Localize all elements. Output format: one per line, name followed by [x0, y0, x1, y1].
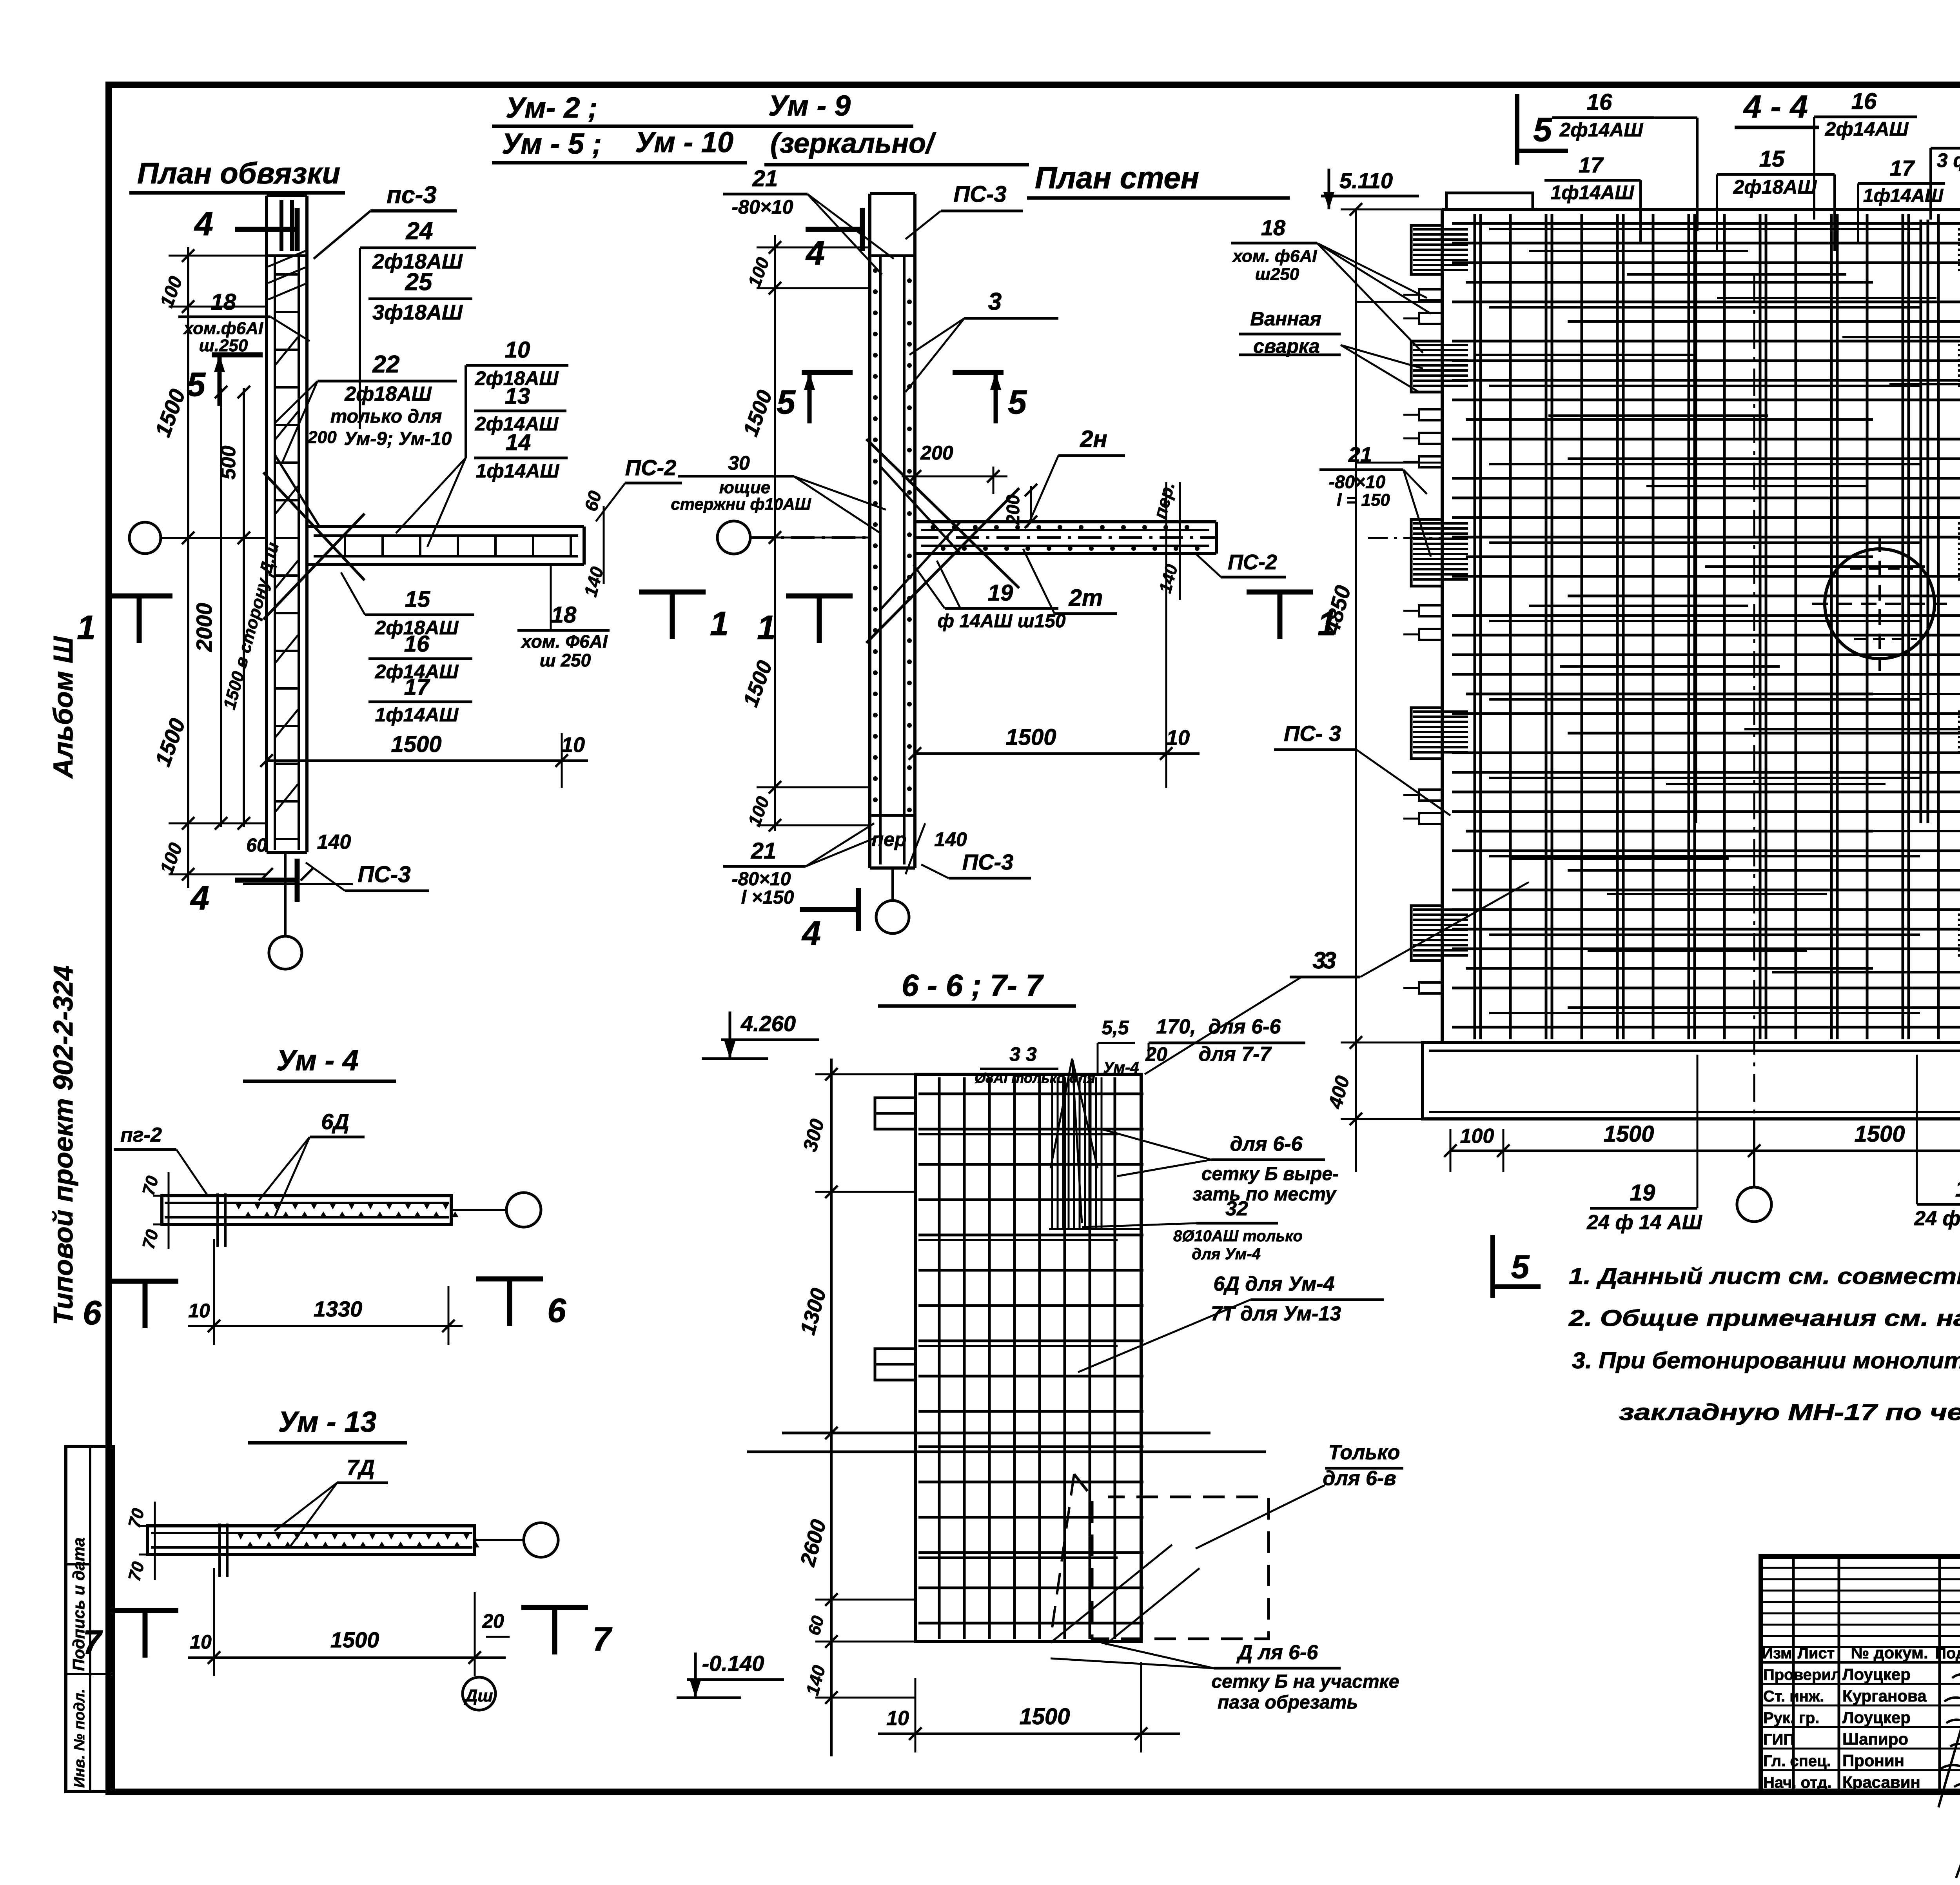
header line 1: Ум-2 ; Ум-9 — [492, 89, 913, 126]
svg-text:140: 140 — [934, 828, 967, 850]
label Только для 6-6 — [1196, 1441, 1403, 1549]
svg-text:Гл. спец.: Гл. спец. — [1763, 1752, 1831, 1770]
svg-text:3ф18АШ: 3ф18АШ — [372, 301, 463, 324]
section mark 5 top D3 — [1517, 94, 1568, 165]
top labels over 4-4: 16 2ф14АШ left — [1552, 89, 1697, 231]
svg-text:22: 22 — [372, 351, 400, 378]
svg-text:5.110: 5.110 — [1339, 168, 1393, 193]
axis circle Дш — [463, 1677, 495, 1710]
6-6 funnel leader triangle — [1051, 1059, 1098, 1223]
title block (stamp) — [1761, 1556, 1960, 1791]
svg-text:2ф14АШ: 2ф14АШ — [1559, 119, 1644, 141]
svg-text:2000: 2000 — [192, 603, 216, 652]
svg-text:3: 3 — [1323, 947, 1336, 973]
title block left table texts — [1762, 1643, 1960, 1791]
elevation 4.260 flag — [702, 1011, 819, 1059]
axis circle D2 bottom — [876, 868, 909, 933]
6-6 bottom dim 10 / 1500 — [878, 1662, 1180, 1752]
svg-text:5: 5 — [187, 366, 206, 403]
svg-text:2н: 2н — [1080, 426, 1107, 452]
svg-text:Д ля 6-6: Д ля 6-6 — [1236, 1641, 1319, 1664]
svg-text:1500: 1500 — [1603, 1121, 1654, 1147]
svg-text:30: 30 — [728, 452, 750, 474]
section marks 5 D2 — [777, 372, 1027, 423]
svg-text:l ×150: l ×150 — [741, 887, 794, 908]
label 2н D2 — [1027, 426, 1125, 527]
svg-text:10: 10 — [1166, 726, 1190, 750]
svg-text:ПС-3: ПС-3 — [962, 850, 1014, 874]
svg-text:Ум - 13: Ум - 13 — [278, 1406, 376, 1438]
svg-text:пс-3: пс-3 — [387, 182, 436, 209]
Ум-13 bar — [147, 1524, 475, 1577]
Ум-4 bottom dim 10/1330 — [188, 1239, 463, 1345]
svg-text:200: 200 — [307, 428, 337, 447]
notes text block — [1568, 1264, 1960, 1425]
svg-text:ш250: ш250 — [1255, 265, 1299, 284]
labels left side D3: 18 хом ф6АI ш250 — [1231, 215, 1431, 353]
svg-text:Ум-9; Ум-10: Ум-9; Ум-10 — [344, 429, 452, 449]
svg-text:1. Данный лист см. совмест: 1. Данный лист см. совместно с листами К… — [1569, 1264, 1960, 1289]
label ПС-3 bottom D2 — [921, 850, 1031, 878]
svg-text:Ст. инж.: Ст. инж. — [1763, 1688, 1824, 1705]
elevation mark 5.110 D3 — [1321, 168, 1419, 209]
left margin vertical caption: Типовой проект 902-2-324 Альбом III — [48, 636, 78, 1325]
section mark 5 bottom D3 — [1493, 1235, 1541, 1298]
svg-text:5: 5 — [777, 383, 796, 421]
label 18 хом ф6АI ш250 D1 left — [178, 289, 310, 355]
svg-text:Лист: Лист — [1798, 1645, 1835, 1662]
svg-text:5: 5 — [1008, 383, 1027, 421]
Ум-4 bar (precast + monolithic slab plan) — [162, 1193, 451, 1247]
svg-text:32: 32 — [1225, 1197, 1248, 1220]
section mark 5 D1 — [187, 355, 263, 406]
label ПС-3 top D1 — [314, 182, 457, 259]
svg-text:4: 4 — [190, 879, 209, 917]
svg-text:Типовой проект 902-2-324: Типовой проект 902-2-324 — [48, 966, 78, 1325]
svg-text:16: 16 — [1851, 89, 1877, 114]
svg-text:1500: 1500 — [330, 1627, 379, 1652]
svg-text:10: 10 — [190, 1631, 212, 1653]
svg-text:-80×10: -80×10 — [1329, 472, 1386, 492]
svg-text:Дш: Дш — [464, 1686, 493, 1705]
svg-text:21: 21 — [1348, 443, 1372, 467]
4-4 notch hatching (anchor bars) — [1413, 229, 1960, 955]
svg-text:16: 16 — [1587, 89, 1612, 115]
svg-text:Проверил: Проверил — [1763, 1666, 1841, 1683]
axis circle D1 left — [129, 522, 267, 554]
elevation -0.140 flag — [677, 1651, 784, 1698]
svg-text:ш.250: ш.250 — [199, 336, 248, 355]
left-bottom stamp strip: Инв № подл / Подпись и дата — [66, 1447, 114, 1792]
label 21 -80x10 e150 left D3 — [1319, 443, 1431, 557]
4-4 horizontal rebar lines — [1452, 223, 1960, 1027]
svg-text:Ум - 10: Ум - 10 — [635, 126, 733, 158]
svg-text:1ф14АШ: 1ф14АШ — [1551, 182, 1635, 203]
svg-text:21: 21 — [752, 166, 778, 191]
svg-text:-80×10: -80×10 — [732, 869, 791, 890]
svg-text:24 ф 14 АШ: 24 ф 14 АШ — [1586, 1211, 1702, 1234]
label 33 ф8АI только для Ум-4 — [975, 1043, 1139, 1086]
4-4 edge clips (embedded plates) — [1403, 289, 1960, 993]
svg-text:4: 4 — [194, 205, 213, 243]
svg-text:1: 1 — [710, 605, 729, 643]
Ум-4 mesh triangle ticks — [235, 1203, 459, 1217]
svg-text:Красавин: Красавин — [1842, 1773, 1920, 1791]
svg-text:18: 18 — [211, 289, 236, 315]
label ПС-3 top D2 — [906, 182, 1023, 239]
axis circle D1 bottom — [269, 852, 302, 969]
svg-text:для 7-7: для 7-7 — [1199, 1043, 1272, 1066]
svg-text:13: 13 — [505, 383, 530, 409]
svg-text:ПС-3: ПС-3 — [358, 862, 410, 887]
svg-text:Пронин: Пронин — [1842, 1751, 1904, 1770]
top label 17 1ф14АШ left — [1544, 153, 1641, 243]
section mark 1 left D1 — [77, 596, 172, 646]
svg-text:сетку Б на участке: сетку Б на участке — [1211, 1671, 1399, 1692]
svg-text:l = 150: l = 150 — [1337, 490, 1390, 510]
4-4 short lap bars — [1474, 251, 1960, 972]
svg-text:100: 100 — [1460, 1125, 1494, 1148]
section mark 1 right D1 — [639, 592, 729, 643]
svg-text:пг-2: пг-2 — [120, 1124, 162, 1146]
svg-text:17: 17 — [1579, 153, 1604, 177]
svg-text:7Т для Ум-13: 7Т для Ум-13 — [1211, 1302, 1341, 1325]
svg-text:7: 7 — [83, 1623, 103, 1661]
svg-text:5: 5 — [1511, 1248, 1530, 1285]
label ПС-3 bottom D1 — [306, 862, 429, 891]
svg-text:170,: 170, — [1156, 1015, 1196, 1038]
6-6 bottom leader diagonals — [1051, 1545, 1200, 1645]
label 3 left-bottom D3 — [1290, 882, 1529, 977]
svg-text:1: 1 — [77, 609, 96, 646]
svg-text:15: 15 — [1759, 146, 1785, 172]
svg-text:8Ø10АШ только: 8Ø10АШ только — [1173, 1228, 1303, 1245]
svg-text:4 - 4: 4 - 4 — [1743, 89, 1808, 125]
dimension chain D1 left: 100/1500/2000/500 — [150, 247, 283, 888]
svg-text:25: 25 — [405, 269, 433, 296]
label пер / ПС-2 / 140 right D2 — [1149, 479, 1286, 600]
svg-text:пер: пер — [872, 828, 907, 850]
svg-text:10: 10 — [505, 337, 530, 363]
svg-text:хом. Ф6АI: хом. Ф6АI — [520, 631, 608, 652]
svg-text:4.260: 4.260 — [740, 1011, 796, 1036]
top label 25 3ф18АШ — [1931, 120, 1960, 220]
dim 60/140 bottom D1 — [243, 831, 353, 884]
6-6 panel outline — [875, 1074, 1141, 1642]
dimension chain D2 left — [739, 235, 870, 832]
Ум-13 left dims 70/70 — [125, 1502, 171, 1583]
label 19 ф14АШ ш150 D2 — [913, 561, 1066, 632]
svg-text:17: 17 — [1890, 156, 1915, 180]
svg-text:6 - 6 ; 7- 7: 6 - 6 ; 7- 7 — [902, 968, 1044, 1002]
svg-text:3. При бетонировании монолит: 3. При бетонировании монолитного участка… — [1572, 1348, 1960, 1373]
svg-text:1500: 1500 — [391, 732, 441, 757]
svg-text:ПС-3: ПС-3 — [953, 182, 1006, 207]
svg-text:ф 14АШ ш150: ф 14АШ ш150 — [938, 611, 1066, 632]
dim 200 horizontal D2 — [902, 442, 1007, 494]
svg-text:10: 10 — [188, 1300, 210, 1322]
svg-text:2т: 2т — [1069, 585, 1103, 611]
svg-text:2ф18АШ: 2ф18АШ — [344, 383, 432, 405]
svg-text:Ум - 5 ;: Ум - 5 ; — [502, 127, 602, 160]
junction diagonals D1 — [263, 455, 365, 619]
svg-text:20: 20 — [482, 1610, 504, 1632]
label 21 -80x10 l=150 bottom D2 — [723, 823, 882, 908]
svg-text:хом.ф6АI: хом.ф6АI — [183, 319, 263, 338]
svg-text:10: 10 — [561, 733, 585, 757]
section 4-4 title — [1735, 89, 1819, 127]
svg-text:3: 3 — [988, 288, 1002, 315]
labels top right 6-6: 5,5 / 170 для 6-6 / 20 для 7-7 — [1098, 1015, 1305, 1074]
6-6 long construction joint lines — [747, 1433, 1266, 1452]
svg-text:Нач. отд.: Нач. отд. — [1763, 1774, 1832, 1791]
svg-text:Ванная: Ванная — [1250, 308, 1321, 330]
svg-text:ш 250: ш 250 — [540, 650, 591, 670]
label 30 стержни ф10АШ D2 — [671, 452, 886, 533]
label 7Д — [274, 1455, 388, 1547]
svg-text:сетку Б выре-: сетку Б выре- — [1201, 1164, 1339, 1184]
svg-text:Только: Только — [1328, 1441, 1400, 1464]
dim 60/140 right of branch D1 — [580, 489, 607, 599]
section mark 4 bottom D1 — [190, 859, 297, 917]
svg-text:План обвязки: План обвязки — [137, 157, 340, 190]
4-4 footing strip — [1423, 1042, 1960, 1119]
6-6 dashed cut-out box — [1051, 1474, 1269, 1639]
svg-text:ющие: ющие — [719, 478, 771, 497]
4-4 panel outline with castellated edges — [1411, 193, 1960, 1042]
svg-text:6Д: 6Д — [321, 1109, 349, 1134]
svg-text:4: 4 — [801, 915, 821, 952]
svg-text:6: 6 — [547, 1292, 566, 1329]
axis circle D2 left — [717, 521, 1216, 554]
4-4 bottom axis circle — [1737, 1119, 1771, 1222]
dim 1500 / 10 D2 — [909, 482, 1200, 788]
svg-text:24 ф 14 АШ: 24 ф 14 АШ — [1914, 1207, 1960, 1230]
svg-text:ПС-2: ПС-2 — [625, 455, 677, 480]
svg-text:Ум - 4: Ум - 4 — [276, 1044, 359, 1077]
svg-text:1500: 1500 — [1005, 725, 1056, 750]
svg-text:200: 200 — [1003, 494, 1023, 525]
title block signatures squiggles — [1938, 1666, 1960, 1878]
label stack 15/16/17 D1 — [341, 572, 474, 726]
6-6 dense mesh top right (for Ум-4) — [1049, 1077, 1141, 1229]
label 6Д для Ум-4 / 7Т для Ум-13 — [1078, 1273, 1384, 1372]
svg-text:1500: 1500 — [1854, 1121, 1905, 1147]
svg-text:Ум-4: Ум-4 — [1103, 1059, 1139, 1076]
svg-text:3 3: 3 3 — [1009, 1043, 1037, 1065]
label Для 6-6 сетку Б на участке паза обрезать — [1051, 1641, 1399, 1713]
title Ум-13 — [248, 1406, 407, 1443]
svg-text:19: 19 — [1955, 1176, 1960, 1202]
label 32 8ф10АШ только для Ум-4 — [1082, 1197, 1303, 1263]
svg-text:1ф14АШ: 1ф14АШ — [476, 460, 560, 482]
Ум-4 axis circle right — [451, 1193, 541, 1227]
svg-text:для Ум-4: для Ум-4 — [1192, 1246, 1261, 1263]
svg-text:2ф14АШ: 2ф14АШ — [1825, 118, 1909, 140]
svg-text:17: 17 — [404, 674, 430, 700]
4-4 circle opening with dashed cross — [1812, 536, 1947, 671]
svg-text:3 ф 18 АШ: 3 ф 18 АШ — [1937, 149, 1960, 171]
section mark 4 top D1 — [194, 205, 297, 251]
section mark 1 D2 pair — [757, 592, 1336, 646]
svg-text:№ докум.: № докум. — [1851, 1643, 1928, 1662]
rebar dots D2 branch — [931, 525, 1200, 551]
svg-text:14: 14 — [506, 430, 531, 455]
top label 15 2ф18АШ — [1717, 146, 1835, 251]
svg-text:зать по месту: зать по месту — [1192, 1184, 1337, 1205]
wall column D1 (ПС-3 panel plan) — [267, 196, 307, 852]
label 21 -80x10 top D2 — [723, 166, 894, 274]
Ум-13 bottom dim 10/1500/20 — [188, 1568, 510, 1676]
svg-text:21: 21 — [751, 838, 777, 864]
wall column D2 — [870, 194, 915, 868]
svg-text:10: 10 — [886, 1707, 909, 1730]
svg-text:для 6-6: для 6-6 — [1230, 1133, 1303, 1155]
label stack 10/13/14 D1 — [396, 337, 568, 547]
svg-text:(зеркально/: (зеркально/ — [770, 128, 936, 159]
svg-text:500: 500 — [217, 446, 240, 480]
Ум-4 section marks 6 — [83, 1279, 566, 1332]
svg-text:ПС-2: ПС-2 — [1228, 550, 1277, 574]
label 18 хом Ф6АI ш250 D1 bottom-right — [517, 565, 610, 670]
4-4 vertical rebar lines — [1475, 214, 1960, 1039]
svg-text:2. Общие примечания см.: 2. Общие примечания см. на листе КШ-23. — [1568, 1306, 1960, 1331]
svg-text:5,5: 5,5 — [1102, 1017, 1129, 1039]
svg-text:6Д для Ум-4: 6Д для Ум-4 — [1213, 1273, 1334, 1295]
svg-text:7: 7 — [592, 1620, 613, 1658]
4-4 left dimension 4850/400 — [1319, 203, 1442, 1172]
svg-text:закладную МН-17 по черт. К: закладную МН-17 по черт. КЖ-22 с приварк… — [1619, 1400, 1960, 1425]
svg-text:Изм: Изм — [1762, 1645, 1792, 1662]
svg-text:хом. ф6АI: хом. ф6АI — [1232, 247, 1317, 266]
wall branch D2 — [915, 522, 1216, 554]
title План обвязки — [129, 157, 345, 193]
6-6 left dimension chain 300/1300/2600/60/140 — [796, 1059, 915, 1756]
svg-text:Ø8АI только для: Ø8АI только для — [975, 1070, 1095, 1086]
label пер 140 bottom D2 — [872, 823, 967, 874]
svg-text:6: 6 — [83, 1294, 102, 1332]
header line 2: Ум-5 ; Ум-10 (зеркально) — [492, 126, 1029, 165]
svg-text:-0.140: -0.140 — [702, 1651, 764, 1676]
svg-text:60: 60 — [246, 835, 267, 856]
label 24 2ф18АШ D1 — [360, 218, 476, 429]
svg-text:для 6-в: для 6-в — [1323, 1467, 1396, 1490]
4-4 bottom dimension 100/1500/1500/100 — [1444, 1121, 1960, 1172]
top label 16 2ф14АШ right — [1814, 89, 1917, 220]
svg-text:18: 18 — [1261, 215, 1286, 240]
label 25 3ф18АШ D1 — [368, 269, 472, 324]
Ум-13 section marks 7 — [83, 1607, 613, 1661]
svg-text:19: 19 — [988, 580, 1013, 606]
svg-text:Инв. № подл.: Инв. № подл. — [71, 1689, 88, 1788]
svg-text:1ф14АШ: 1ф14АШ — [375, 704, 459, 726]
svg-text:паза обрезать: паза обрезать — [1218, 1692, 1358, 1713]
svg-text:Курганова: Курганова — [1842, 1687, 1927, 1705]
svg-text:4: 4 — [805, 234, 825, 272]
svg-text:15: 15 — [405, 587, 430, 612]
svg-text:24: 24 — [406, 218, 433, 245]
svg-text:Альбом Ш: Альбом Ш — [48, 636, 78, 779]
svg-text:План стен: План стен — [1035, 160, 1199, 195]
title Ум-4 — [243, 1044, 396, 1081]
svg-text:1330: 1330 — [314, 1297, 363, 1321]
svg-text:1500: 1500 — [1019, 1704, 1070, 1729]
svg-text:5: 5 — [1533, 111, 1552, 149]
svg-text:Шапиро: Шапиро — [1842, 1730, 1908, 1748]
svg-text:стержни ф10АШ: стержни ф10АШ — [671, 495, 811, 513]
section mark 4 top D2 — [805, 208, 862, 272]
svg-text:2ф18АШ: 2ф18АШ — [1733, 176, 1817, 198]
svg-text:ГИП: ГИП — [1763, 1731, 1795, 1748]
label 3 right top 6-6 — [1145, 947, 1356, 1074]
junction diagonals D2 — [866, 439, 1019, 643]
label 3 with leaders D2 — [906, 288, 1058, 392]
label ПС-3 left D3 — [1274, 721, 1450, 815]
labels 19 24ф14АШ bottom D3 — [1586, 1055, 1960, 1234]
dim 200 vertical D2 — [1003, 484, 1037, 528]
6-6 grid bars — [918, 1077, 1143, 1639]
svg-text:ПС- 3: ПС- 3 — [1284, 721, 1341, 746]
svg-text:Ум - 9: Ум - 9 — [768, 89, 851, 122]
svg-text:Лоуцкер: Лоуцкер — [1842, 1665, 1911, 1683]
svg-text:Подпись: Подпись — [1935, 1645, 1960, 1662]
dim 1500 / 10 bottom D1 — [260, 732, 588, 788]
svg-text:7Д: 7Д — [347, 1455, 375, 1480]
label 6Д with leaders — [259, 1109, 365, 1217]
svg-text:140: 140 — [317, 831, 351, 854]
svg-text:1: 1 — [757, 609, 776, 646]
Ум-4 left dims 70/70 — [139, 1172, 184, 1251]
Ум-13 axis circle right — [475, 1523, 558, 1557]
4-4 left leader lines to edge — [1356, 302, 1442, 538]
svg-text:-80×10: -80×10 — [731, 196, 793, 218]
svg-text:19: 19 — [1630, 1180, 1655, 1206]
label 2т D2 — [1023, 549, 1117, 614]
svg-text:16: 16 — [404, 631, 430, 657]
svg-text:200: 200 — [920, 442, 953, 464]
rebar dots D2 column — [873, 268, 912, 812]
top label 17 1ф14АШ right — [1858, 156, 1945, 243]
label ПС-2 D1 — [596, 455, 682, 521]
section 6-6 7-7 title — [878, 968, 1076, 1006]
svg-text:18: 18 — [551, 602, 577, 628]
svg-text:Ум- 2 ;: Ум- 2 ; — [506, 91, 598, 124]
title План стен — [1027, 160, 1290, 198]
section mark 4 bottom D2 — [800, 888, 858, 952]
label Ванная сварка left D3 — [1239, 308, 1423, 392]
svg-text:Лоуцкер: Лоуцкер — [1842, 1708, 1911, 1727]
svg-text:Рук. гр.: Рук. гр. — [1763, 1709, 1819, 1727]
wall branch D1 (horizontal wall to ПС-2) — [307, 527, 584, 565]
Ум-13 mesh triangle ticks — [237, 1533, 479, 1547]
4-4 centerline vertical — [1753, 274, 1755, 1119]
label 22 stack D1 — [274, 351, 457, 463]
svg-text:только для: только для — [330, 406, 442, 427]
label ПГ-2 — [114, 1124, 208, 1196]
label для 6-6 сетку Б вырезать по месту — [1102, 1129, 1339, 1205]
